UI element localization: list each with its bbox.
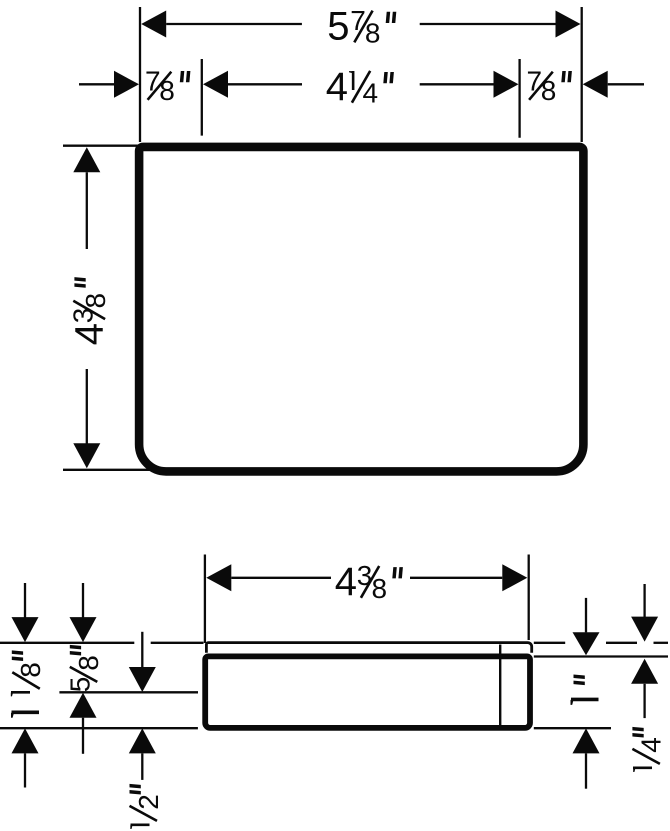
extension line left (side view width) (204, 555, 206, 644)
dimension 1 1/8 lower tail (24, 753, 26, 787)
svg-text:4: 4 (363, 78, 379, 109)
dimension 1/4 lower tail (643, 684, 645, 718)
extension line inner-right (4 1/4 span) (518, 59, 520, 138)
dimension 4 3/8 side right arrow (502, 564, 527, 591)
dimension 5/8 lower arrow (70, 693, 97, 718)
dimension 5 7/8 line left segment (166, 23, 302, 25)
dimension 7/8 right outside arrow (583, 71, 608, 98)
dimension 4 3/8 inch height: top arrow (73, 147, 100, 172)
dimension 4 1/4 line right segment (420, 83, 494, 85)
dimension 4 1/4 line left segment (228, 83, 302, 85)
dimension 7/8 left outside arrow (114, 71, 139, 98)
dimension 1/4 lower arrow (631, 659, 658, 684)
dimension 5/8 text (rotated) (65, 645, 105, 692)
svg-text:I: I (5, 688, 36, 696)
dimension 1/4 upper arrow (631, 617, 658, 642)
reference line mid level (5/8 bottom) (59, 691, 198, 693)
dimension 1/4 text (rotated) (627, 727, 667, 772)
dimension 1 1/8 upper arrow (12, 617, 39, 642)
svg-text:3: 3 (68, 308, 99, 324)
reference line top level (plate top) left part (0, 642, 134, 644)
dimension 4 3/8 inch side view: left arrow (206, 564, 231, 591)
extension line top (height 4 3/8) (63, 145, 139, 147)
svg-text:7: 7 (350, 5, 366, 36)
dimension 1 inch lower arrow (573, 728, 600, 753)
dimension 4 3/8 height bottom arrow (73, 443, 100, 468)
glass plate top line (side view) (206, 643, 531, 653)
side view body (shelf profile) (205, 656, 530, 728)
dimension 1/2 upper arrow (129, 667, 156, 692)
dimension 1 inch lower tail (585, 753, 587, 788)
dimension 5 7/8 inch overall width: left arrow (141, 11, 166, 38)
dimension 1 1/8 text (rotated) (4, 650, 48, 718)
dimension 5/8 lower tail (82, 718, 84, 754)
inner edge line near right end of body (499, 645, 501, 726)
svg-text:I: I (4, 707, 48, 718)
dimension 4 3/8 side line right segment (410, 577, 502, 579)
extension line right (overall width) (581, 7, 583, 142)
top view outline (shelf plan view, rounded rectangle) (139, 147, 583, 472)
dimension 1 inch upper arrow (573, 632, 600, 655)
svg-text:5: 5 (327, 5, 349, 49)
svg-text:8: 8 (159, 75, 175, 106)
dimension 1/2 lower arrow (129, 728, 156, 753)
reference line top level right segments (534, 642, 565, 644)
dimension 1 inch: upper tail (585, 598, 587, 633)
svg-text:4: 4 (636, 737, 667, 753)
dimension 4 3/8 height text (rotated) (67, 277, 111, 345)
dimension 1/2 text (rotated) (124, 784, 164, 829)
svg-text:4: 4 (67, 323, 111, 345)
dimension 4 1/4 right arrow (494, 71, 519, 98)
svg-text:I: I (349, 65, 357, 96)
svg-text:I: I (124, 821, 155, 829)
extension line bottom (height 4 3/8) (63, 469, 150, 471)
svg-text:2: 2 (133, 794, 164, 810)
dimension 1 1/8 lower arrow (12, 728, 39, 753)
dimension 4 1/4 inch: left arrow (203, 71, 228, 98)
dimension 5/8 upper arrow (70, 617, 97, 642)
reference line bottom level right part (534, 727, 611, 729)
extension line right (side view width) (528, 555, 530, 641)
svg-text:4: 4 (335, 560, 357, 604)
dimension 1/2 lower tail (141, 753, 143, 780)
dimension 5/8 inch: upper tail (82, 583, 84, 619)
dimension 5 7/8 right arrow (556, 11, 581, 38)
svg-text:8: 8 (365, 17, 381, 48)
dimension 4 3/8 side line left segment (231, 577, 331, 579)
svg-text:4: 4 (326, 65, 348, 109)
svg-text:8: 8 (80, 293, 111, 309)
extension line inner-left (4 1/4 span) (201, 59, 203, 136)
svg-text:8: 8 (73, 655, 104, 671)
dimension 7/8 inch left: outside tail (79, 83, 114, 85)
dimension 1/4 inch: upper tail (643, 584, 645, 618)
dimension 7/8 right outside tail (608, 83, 644, 85)
reference line body-top level (right side) (534, 655, 668, 657)
extension line left (overall width) (139, 7, 141, 142)
dimension 1/2 inch: upper tail (141, 632, 143, 668)
svg-text:I: I (627, 764, 658, 772)
dimension 1 inch text (rotated) (564, 675, 608, 706)
svg-text:8: 8 (372, 573, 388, 604)
dimension 1 1/8 inch: upper tail (24, 583, 26, 619)
svg-text:8: 8 (15, 662, 46, 678)
dimension 5 7/8 line right segment (420, 23, 556, 25)
dimension 4 3/8 height line upper segment (86, 172, 88, 249)
svg-text:3: 3 (357, 560, 373, 591)
reference line bottom level left part (0, 727, 198, 729)
svg-text:I: I (564, 694, 608, 705)
svg-text:8: 8 (541, 75, 557, 106)
dimension 4 3/8 height line lower segment (86, 369, 88, 444)
